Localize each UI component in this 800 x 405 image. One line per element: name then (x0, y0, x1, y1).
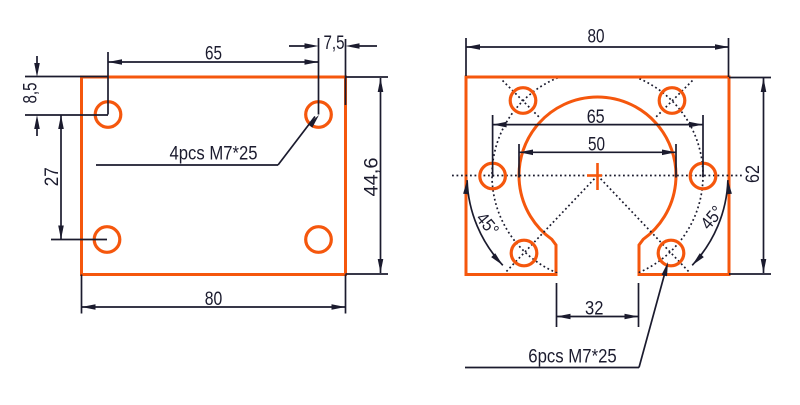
svg-text:4pcs M7*25: 4pcs M7*25 (170, 144, 258, 165)
svg-text:8,5: 8,5 (21, 83, 42, 104)
svg-text:62: 62 (743, 165, 764, 183)
svg-text:50: 50 (588, 135, 605, 156)
svg-text:80: 80 (588, 27, 605, 48)
svg-text:80: 80 (205, 289, 223, 310)
svg-text:7,5: 7,5 (324, 33, 345, 54)
svg-text:6pcs M7*25: 6pcs M7*25 (528, 347, 617, 368)
svg-text:65: 65 (587, 107, 605, 128)
svg-text:27: 27 (42, 167, 63, 186)
svg-text:65: 65 (205, 43, 222, 64)
svg-text:44,6: 44,6 (362, 158, 383, 197)
svg-text:32: 32 (585, 298, 603, 319)
